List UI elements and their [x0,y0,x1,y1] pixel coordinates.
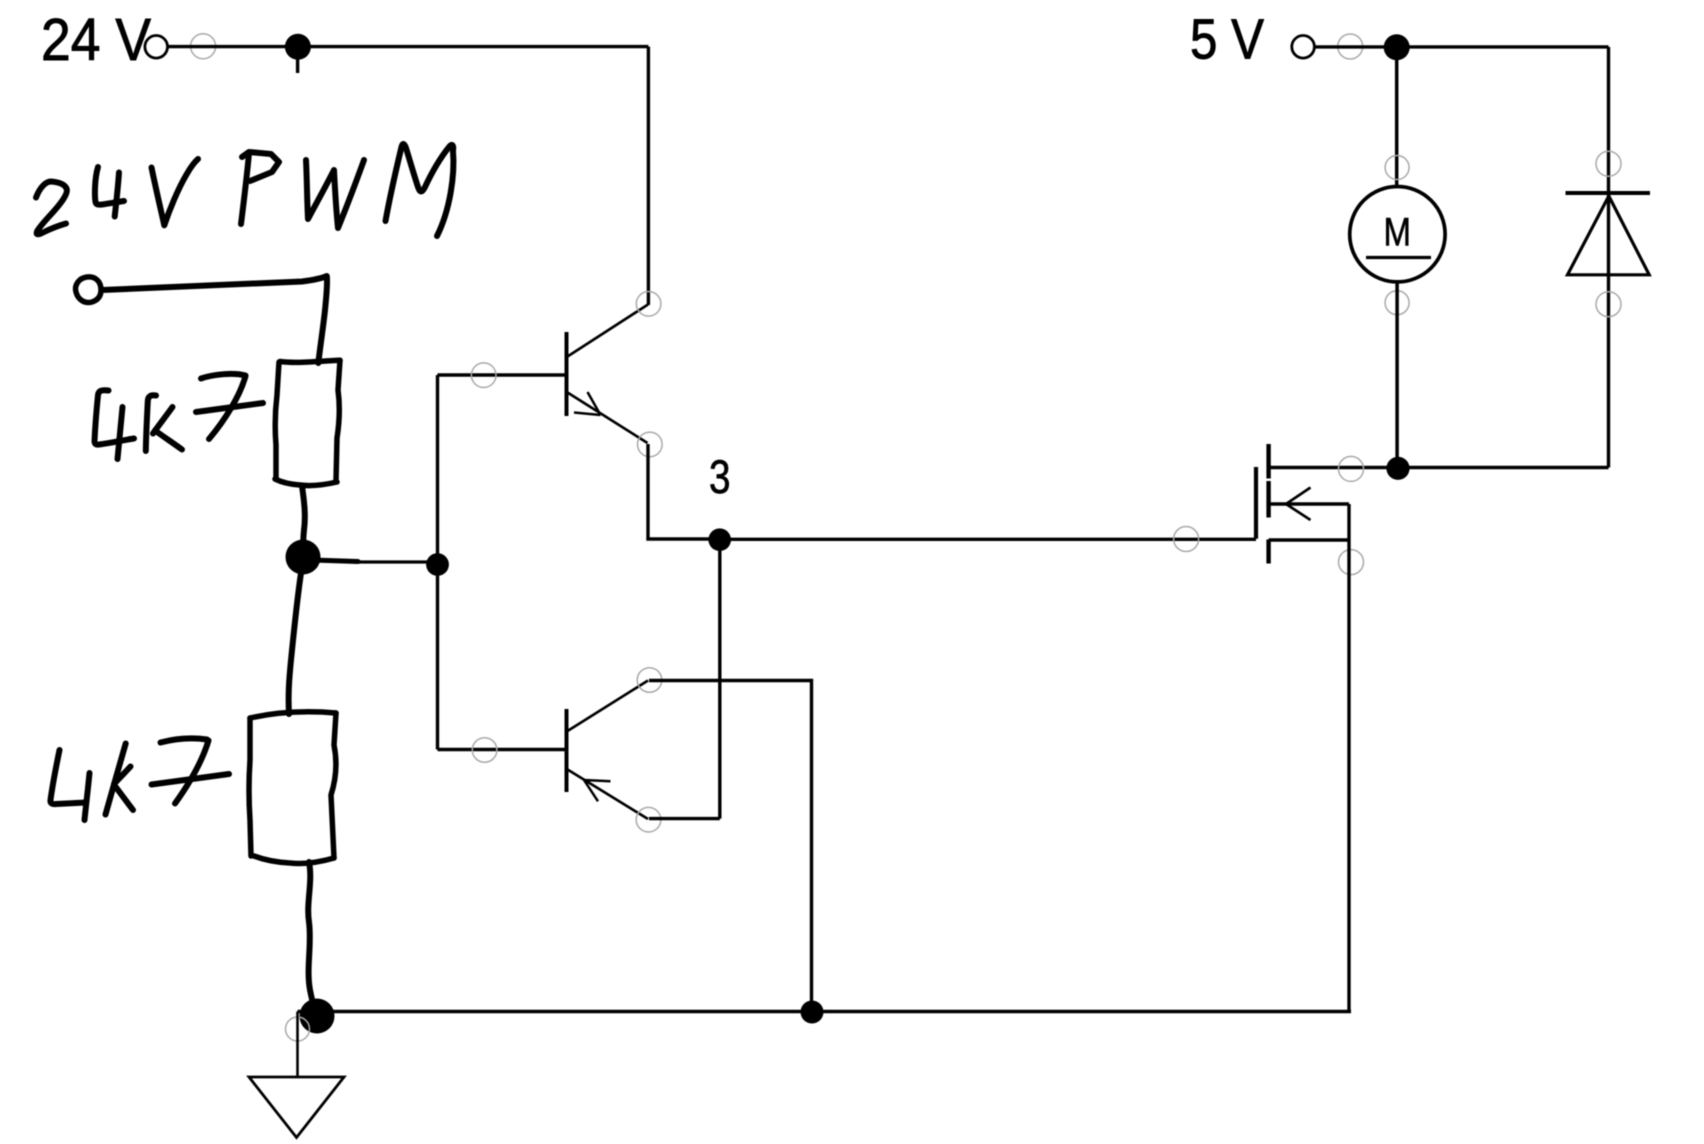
Q1 base bar [565,332,569,416]
svg-text:3: 3 [709,450,731,503]
wire 5V to diode [1607,47,1610,468]
value label 4k7 (R1, handwritten) [95,374,264,459]
wire 5V to motor [1395,47,1399,187]
diode D1 (flyback) [1566,193,1651,275]
transistor Q1 (NPN) [567,292,663,457]
junction dot drain node [1386,457,1409,480]
port circle motor bottom [1385,291,1409,315]
wire Q2 collector to bottom rail [649,681,812,1012]
body arrow [1286,488,1311,521]
Q1 emitter arrow [574,392,601,415]
channel dash body [1266,481,1270,518]
bottom ground rail [298,1010,1352,1013]
port circle source [1339,550,1364,575]
port circle Q2 collector [637,668,662,693]
port circle Q1 emitter [638,432,663,457]
svg-text:M: M [1384,210,1412,254]
junction dot on 24V rail [285,34,311,60]
port circle ground [286,1017,310,1041]
port circle Q1 base [471,363,496,388]
Q2 emitter line [568,770,649,820]
wire PWM to R1 (hand-drawn) [102,276,327,363]
wire motor to drain node [1395,282,1399,468]
handwritten label 24V PWM [36,144,453,236]
gate bar [1254,467,1258,539]
drain line [1269,466,1609,469]
terminal loop PWM input (hand-drawn) [76,277,101,303]
Q1 emitter line [568,393,648,444]
Q2 emitter arrow [584,780,611,801]
port circle diode top [1596,151,1621,176]
port circle Q1 collector [636,292,661,317]
resistor R1 (hand-drawn box) [275,360,340,485]
anode triangle [1568,196,1650,275]
port circle gate wire [1174,527,1199,552]
wire node 3 to MOSFET gate [720,538,1256,541]
MOSFET M1 (N-channel) [1256,444,1609,575]
wire 24V rail top [168,45,648,48]
svg-text:24 V: 24 V [41,6,151,73]
Q2 base bar [565,709,569,792]
port circle diode bottom [1596,292,1621,317]
transistor Q2 (PNP) [567,668,662,832]
wire 5V rail [1315,45,1609,48]
junction dot rail / Q2 collector [801,1001,824,1024]
Q2 collector line [568,681,649,732]
svg-text:5 V: 5 V [1190,8,1264,72]
port circle Q2 base [472,738,497,763]
wire stub below 24V junction [296,58,299,73]
value label 4k7 (R2, handwritten) [50,739,229,821]
transistor Q2 (PNP) base wire [438,748,565,751]
body line with arrow [1269,502,1349,505]
Q1 collector line [568,305,649,357]
junction dot 5V [1384,34,1410,60]
port circle on 24V wire [191,34,216,59]
wire to ground symbol [296,1012,299,1078]
source line [1269,538,1349,541]
node 3 junction dot [708,528,731,551]
channel dash drain [1266,444,1270,479]
wire R1 to mid junction (hand-drawn) [302,486,305,553]
motor M [1350,187,1445,282]
cathode bar [1566,191,1651,195]
wire down to Q1 collector [647,47,650,305]
junction dot mid (hand node) [286,540,321,575]
port circle on 5V wire [1338,34,1363,59]
port circle Q2 emitter [636,807,661,832]
port circle drain [1339,456,1364,481]
wire Q2 emitter to node3 vertical [649,817,720,820]
wire bases vertical [436,375,439,750]
junction dot ground node (hand node) [300,999,335,1034]
port circle motor top [1385,156,1409,180]
wire Q1 emitter to node 3 [648,444,720,539]
terminal circle 24V [145,36,168,59]
transistor Q1 (NPN) base wire [438,373,565,376]
wire mid junction to Q-bases node [312,560,358,562]
junction dot bases node [426,553,449,576]
channel dash source [1266,540,1270,564]
terminal circle 5V [1292,36,1315,59]
ground symbol [249,1077,344,1138]
wire node 3 down to Q2 emitter [718,540,721,819]
wire R2 to ground node (hand-drawn) [308,862,316,1013]
wire mid junction to R2 (hand-drawn) [289,573,301,714]
resistor R2 (hand-drawn box) [249,712,336,864]
wire MOSFET source down to rail [1347,504,1350,1012]
